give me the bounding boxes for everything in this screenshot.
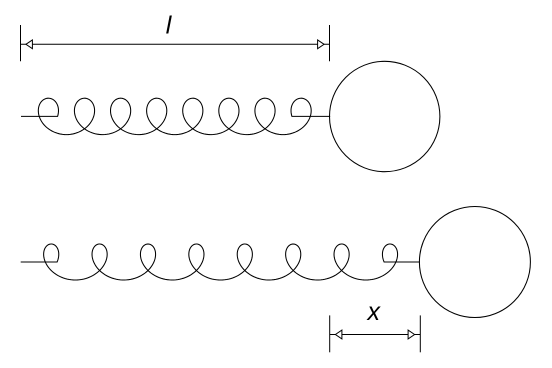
ball bottom (419, 207, 530, 318)
dimension x left tick (329, 315, 331, 352)
svg-text:x: x (367, 298, 382, 326)
dimension x line (330, 334, 421, 336)
dimension x right arrowhead (408, 330, 415, 339)
dimension x left arrowhead (335, 330, 342, 339)
dimension l left arrowhead (26, 40, 33, 49)
dimension x right tick (419, 315, 421, 352)
spring at natural length (top coil) (21, 98, 330, 134)
dimension l left tick (20, 25, 22, 61)
spring stretched (bottom coil) (21, 244, 420, 280)
svg-text:l: l (166, 12, 173, 40)
dimension l line (21, 43, 330, 45)
ball top (330, 61, 440, 171)
dimension l right arrowhead (318, 40, 325, 49)
dimension l right tick (329, 25, 331, 61)
